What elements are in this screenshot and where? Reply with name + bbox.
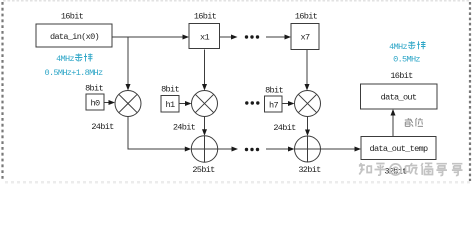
multiplier M0 circle <box>115 91 141 117</box>
arrowhead h7 into M7 <box>288 101 295 106</box>
glyph 位 <box>416 118 424 126</box>
wire x1 right to dots <box>220 36 232 38</box>
box h1 <box>161 96 179 113</box>
glyph 偶 <box>421 163 432 175</box>
box h7 <box>265 96 283 112</box>
arrowhead into data_out_temp <box>355 147 362 152</box>
svg-text:0.5MHz: 0.5MHz <box>393 55 420 65</box>
arrowhead into A2 left <box>288 147 295 152</box>
glyph 哥1 <box>436 164 447 176</box>
glyph 吃 <box>406 163 418 174</box>
adder A1 circle <box>191 136 217 162</box>
arrowhead into M0 top <box>126 84 131 91</box>
box data_in(x0) <box>36 24 112 47</box>
arrowhead up into data_out <box>391 109 396 116</box>
arrowhead after x1 before dots <box>231 35 238 40</box>
wire x7 down to M7 <box>306 50 308 86</box>
arrowhead after A1 before dots <box>232 147 239 152</box>
wire M1 down to A1 <box>204 117 206 131</box>
wire junction down to M0 <box>127 37 129 85</box>
glyph @ <box>390 164 401 175</box>
glyph 知 <box>359 163 371 175</box>
wire h7 to M7 <box>282 103 289 105</box>
arrowhead into M7 top <box>305 84 310 91</box>
svg-text:8bit: 8bit <box>161 85 179 95</box>
svg-text:24bit: 24bit <box>273 123 296 133</box>
glyph 样 <box>84 54 93 62</box>
arrowhead into x7 <box>285 35 292 40</box>
dots top row <box>245 35 248 38</box>
svg-text:8bit: 8bit <box>265 86 283 96</box>
arrowhead into x1 <box>183 35 190 40</box>
glyph 乎 <box>375 164 387 176</box>
wire h0 to M0 <box>104 102 110 104</box>
svg-text:4MHz: 4MHz <box>56 54 74 64</box>
arrowhead into M1 top <box>202 84 207 91</box>
glyph 哥2 <box>452 164 463 176</box>
wire h1 to M1 <box>179 103 186 105</box>
wire x1 down to M1 <box>204 50 206 86</box>
multiplier M1 circle <box>192 91 218 117</box>
watermark 知乎 @吃偶哥哥 <box>359 163 463 176</box>
svg-text:data_in(x0): data_in(x0) <box>50 32 99 42</box>
dots adder row <box>245 148 248 151</box>
arrowhead h0 into M0 <box>109 100 116 105</box>
wire M0 down and right to A1 <box>128 116 186 149</box>
multiplier M7 circle <box>295 91 321 117</box>
svg-text:16bit: 16bit <box>61 12 84 22</box>
wire data_out_temp up to data_out (截位) <box>392 115 394 137</box>
svg-text:x7: x7 <box>301 33 310 43</box>
box h0 <box>86 94 104 110</box>
svg-text:16bit: 16bit <box>295 12 318 22</box>
dashed frame right <box>469 2 471 181</box>
svg-text:data_out_temp: data_out_temp <box>370 144 428 154</box>
dashed frame bottom <box>5 181 471 184</box>
cyan label 4MHz采样 (right) <box>389 42 407 52</box>
svg-text:h1: h1 <box>166 100 175 110</box>
svg-text:16bit: 16bit <box>390 71 413 81</box>
dots multiplier row <box>245 101 248 104</box>
cyan label 4MHz采样 (left) <box>56 54 74 64</box>
svg-text:x1: x1 <box>200 33 209 43</box>
svg-text:data_out: data_out <box>381 93 417 103</box>
glyph 样 <box>417 41 426 49</box>
label 截位 (truncation) <box>405 118 423 127</box>
arrowhead into A1 left <box>185 147 192 152</box>
box x7 <box>291 24 319 50</box>
arrowhead into A1 top <box>202 129 207 136</box>
glyph 采 <box>75 54 83 62</box>
svg-text:4MHz: 4MHz <box>389 42 407 52</box>
box x1 <box>189 24 220 49</box>
svg-text:24bit: 24bit <box>91 122 114 132</box>
svg-text:24bit: 24bit <box>173 123 196 133</box>
arrowhead h1 into M1 <box>185 101 192 106</box>
wire dots to A2 <box>266 148 289 150</box>
wire data_in to x1 <box>112 36 184 38</box>
wire M7 down to A2 <box>307 117 309 131</box>
svg-text:8bit: 8bit <box>85 84 103 94</box>
adder A2 circle <box>295 136 321 162</box>
svg-text:25bit: 25bit <box>192 165 215 175</box>
wire A1 right to dots <box>218 148 232 150</box>
svg-text:0.5MHz+1.8MHz: 0.5MHz+1.8MHz <box>45 68 103 78</box>
box data_out_temp <box>361 137 436 160</box>
wire A2 to data_out_temp <box>321 148 356 150</box>
box data_out <box>361 84 438 109</box>
dashed frame left <box>1 2 3 181</box>
svg-text:16bit: 16bit <box>194 12 217 22</box>
glyph 采 <box>408 41 416 49</box>
arrowhead into A2 top <box>305 130 310 137</box>
glyph 截 <box>405 118 413 127</box>
svg-text:h0: h0 <box>91 99 100 109</box>
dashed frame top <box>3 0 471 2</box>
svg-text:h7: h7 <box>269 101 278 111</box>
wire dots to x7 <box>266 36 286 38</box>
svg-text:32bit: 32bit <box>298 165 321 175</box>
